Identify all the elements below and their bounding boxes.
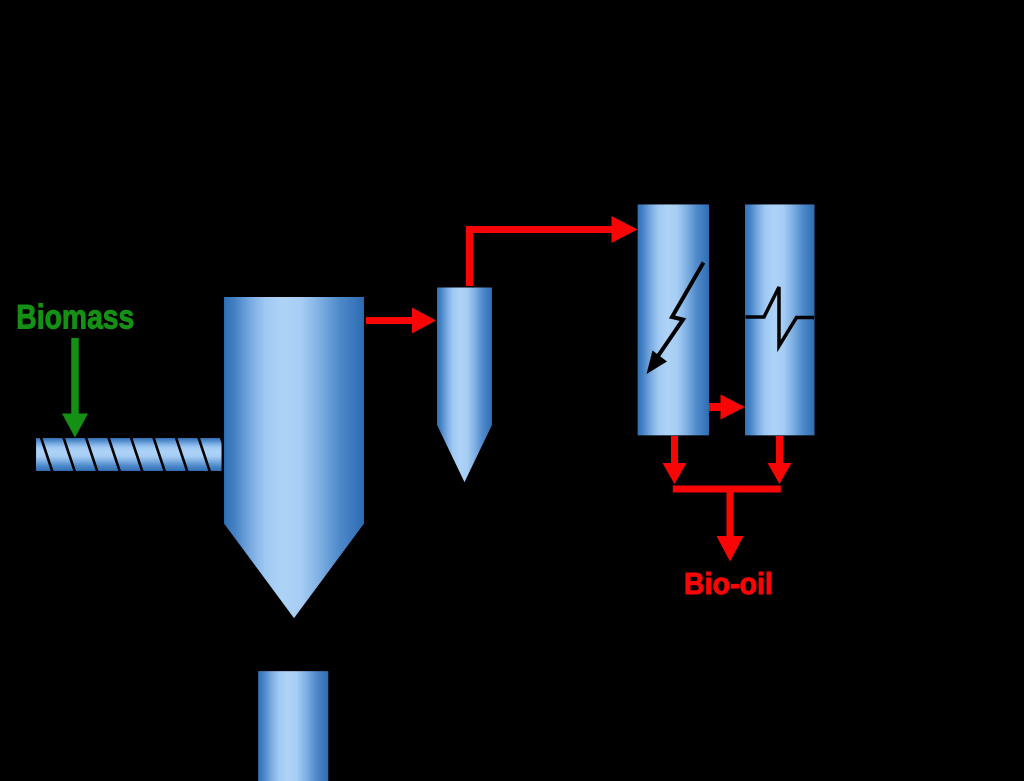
svg-text:Biomass: Biomass — [16, 299, 134, 337]
svg-text:Bio-oil: Bio-oil — [684, 566, 773, 601]
